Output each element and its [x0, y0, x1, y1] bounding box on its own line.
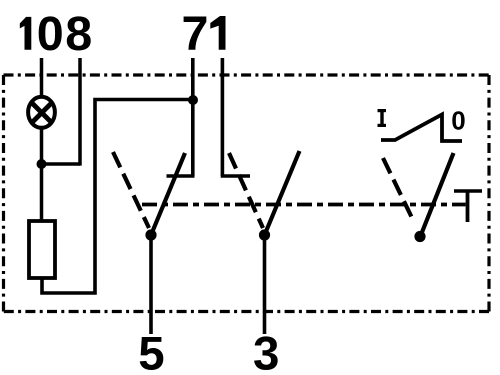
fixed contact of terminal 1 [221, 174, 250, 178]
wire terminal 7 lead [191, 58, 195, 176]
detent latch symbol [454, 191, 482, 222]
svg-text:5: 5 [138, 327, 164, 375]
node junction terminal 7 [188, 95, 198, 105]
fixed contact of terminal 7 [167, 174, 195, 178]
svg-text:8: 8 [65, 7, 92, 61]
wire resistor bottom to node 7 [42, 100, 193, 294]
node switch S1 pivot [145, 229, 156, 240]
enclosure border right edge (dash-dot) [487, 75, 490, 312]
wire terminal 3 lead [263, 235, 267, 334]
svg-text:7: 7 [182, 7, 209, 61]
wire terminal 8 lead [78, 58, 82, 166]
node selector pivot [414, 231, 425, 242]
enclosure border left edge (dash-dot) [2, 75, 5, 312]
terminal label 10 [20, 17, 32, 50]
wire terminal 1 lead [221, 58, 225, 176]
switch S1 blade (terminal 5) [151, 153, 185, 235]
terminal label 1 [210, 16, 225, 50]
position label I [378, 109, 387, 127]
svg-text:0: 0 [37, 7, 64, 61]
switch S2 alternate position (dashed) [229, 153, 263, 228]
wire terminal 5 lead [149, 235, 153, 334]
svg-text:3: 3 [253, 327, 279, 375]
wire terminal 10 lead [40, 58, 44, 97]
resistor R1 [29, 221, 55, 278]
wire junction to terminal 8 [42, 162, 81, 166]
node junction lamp/terminal-8 [37, 159, 47, 169]
mechanical coupling line (dash-dot) [142, 203, 466, 207]
switch S2 blade (terminal 3) [265, 151, 300, 235]
node switch S2 pivot [259, 229, 270, 240]
selector switch blade [421, 153, 454, 236]
switch position cam profile [381, 114, 462, 141]
switch S1 alternate position (dashed) [113, 152, 149, 228]
enclosure border top edge (dash-dot) [4, 73, 490, 76]
selector switch alternate position (dashed) [383, 158, 414, 222]
svg-text:0: 0 [451, 105, 465, 135]
lamp E1 [28, 97, 55, 128]
enclosure border bottom edge (dash-dot) [4, 310, 490, 313]
wire lamp to resistor [40, 128, 44, 222]
